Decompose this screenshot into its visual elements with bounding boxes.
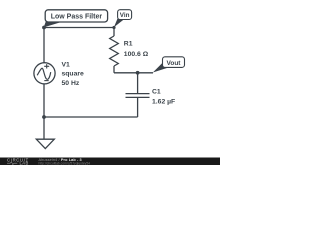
svg-text:R1: R1 (124, 41, 133, 48)
svg-text:1.62 µF: 1.62 µF (152, 99, 175, 106)
svg-text:http://circuitlab.com/c/57yqkp: http://circuitlab.com/c/57yqkpdey54 (39, 161, 91, 165)
voltage source V1 (34, 63, 55, 84)
wire: V1 bottom to ground junction (43, 84, 45, 117)
node Vin junction dot (112, 26, 115, 29)
resistor R1 (110, 28, 119, 73)
annotation flag "Low Pass Filter" (44, 10, 108, 28)
svg-text:Low Pass Filter: Low Pass Filter (51, 14, 103, 21)
wire: junction down to ground (43, 117, 45, 139)
svg-text:LAB: LAB (20, 161, 29, 165)
svg-text:square: square (62, 71, 85, 78)
svg-text:Vout: Vout (167, 60, 182, 67)
ground (36, 139, 54, 148)
svg-text:V1: V1 (62, 62, 71, 69)
svg-text:C1: C1 (152, 88, 161, 95)
svg-text:50 Hz: 50 Hz (62, 80, 80, 87)
wire: bottom horizontal from R1 to Vout stub (114, 72, 153, 74)
node flag Vout (153, 57, 185, 73)
junction dot at capacitor top (136, 71, 140, 75)
wire: left vertical from node A down to V1 top (43, 28, 45, 63)
footer bar (0, 158, 220, 166)
wire: top horizontal from node A to Vin node (44, 27, 114, 29)
junction dot bottom-left (42, 115, 46, 119)
plus sign (44, 65, 49, 67)
waveform glyph inside V1 (37, 68, 51, 79)
minus sign (44, 80, 48, 82)
capacitor C1 (126, 73, 150, 117)
node flag Vin (114, 10, 132, 28)
svg-text:Vin: Vin (120, 12, 130, 19)
node A junction dot (top-left corner) (42, 26, 46, 30)
footer CircuitLab logo (7, 158, 29, 166)
svg-text:100.6 Ω: 100.6 Ω (124, 51, 149, 58)
wire: bottom horizontal from ground junction to capacitor bottom (44, 116, 138, 118)
